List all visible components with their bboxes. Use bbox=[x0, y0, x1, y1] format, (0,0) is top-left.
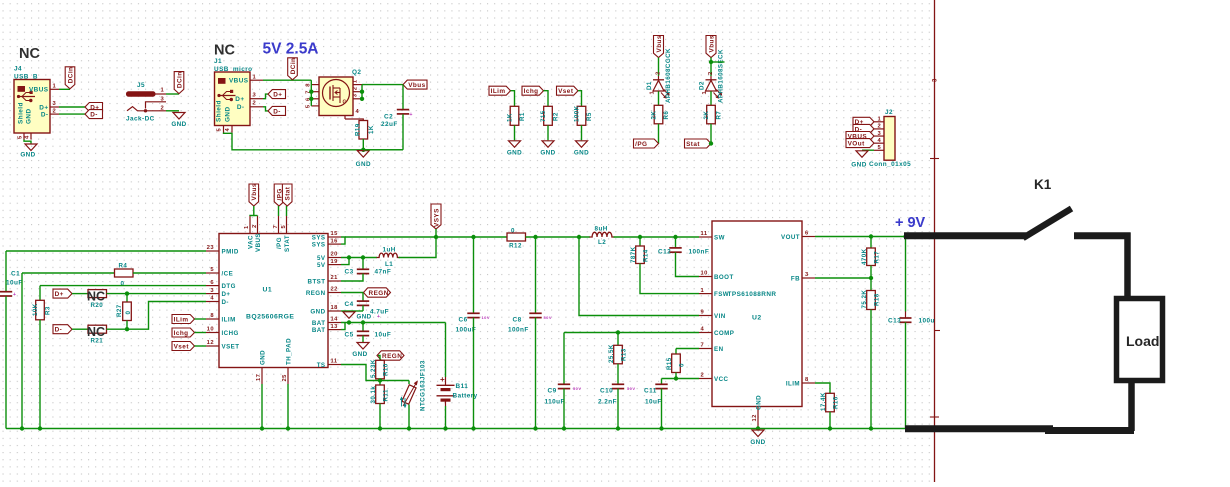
svg-text:R2: R2 bbox=[552, 112, 559, 121]
svg-text:D-: D- bbox=[222, 299, 229, 306]
U2 pin 1 FSW bbox=[699, 293, 712, 295]
svg-text:R16: R16 bbox=[832, 396, 839, 409]
svg-text:D+: D+ bbox=[235, 96, 244, 103]
svg-text:C6: C6 bbox=[459, 317, 468, 324]
J2 pin 4 bbox=[874, 142, 884, 144]
junction Q2 left bbox=[309, 90, 313, 94]
junction R17 top bbox=[869, 234, 873, 238]
svg-text:EN: EN bbox=[714, 346, 724, 353]
svg-text:Q2: Q2 bbox=[352, 69, 361, 76]
svg-text:R13: R13 bbox=[620, 348, 627, 361]
svg-text:D+: D+ bbox=[39, 105, 48, 112]
svg-text:4: 4 bbox=[878, 138, 882, 144]
global label DCin (J5) bbox=[174, 72, 184, 94]
wire VIN branch bbox=[579, 237, 699, 316]
junction BAT bbox=[347, 320, 351, 324]
wire C4 to gnd bbox=[362, 305, 364, 311]
inductor L2 8uH bbox=[590, 232, 615, 237]
resistor R13 25.5K bbox=[617, 333, 619, 346]
svg-text:PMID: PMID bbox=[222, 248, 239, 255]
label Vbus (Q2 output) bbox=[403, 80, 427, 89]
wire R7 down bbox=[710, 124, 712, 144]
svg-text:ILIM: ILIM bbox=[786, 380, 800, 387]
svg-text:VSET: VSET bbox=[222, 343, 240, 350]
junction R19 gnd bbox=[361, 148, 365, 152]
svg-text:7: 7 bbox=[701, 343, 705, 349]
svg-text:NC: NC bbox=[87, 325, 105, 339]
label Ichg bbox=[522, 86, 544, 95]
svg-text:+: + bbox=[410, 112, 413, 118]
wire J1 GND down to rail bbox=[224, 133, 404, 150]
wire Vbus label to U1 pins bbox=[250, 206, 254, 216]
U1 pin 5 /CE bbox=[206, 272, 219, 274]
U1 pin 4 D- bbox=[206, 301, 219, 303]
svg-text:Stat: Stat bbox=[285, 186, 292, 200]
svg-text:C8: C8 bbox=[513, 317, 522, 324]
resistor R10 5.23K bbox=[376, 360, 385, 379]
label D+ (J2) bbox=[853, 117, 874, 126]
wire R20 to U1 D+ bbox=[107, 293, 207, 295]
svg-text:D-: D- bbox=[90, 112, 98, 119]
junction VSYS rail bbox=[434, 235, 438, 239]
svg-text:Vbus: Vbus bbox=[408, 82, 425, 89]
junction D2 top bbox=[709, 60, 713, 64]
global label DCin (J1) bbox=[288, 58, 298, 80]
label D+ (J4) bbox=[85, 103, 103, 112]
svg-text:GND: GND bbox=[540, 150, 555, 157]
svg-text:715: 715 bbox=[540, 110, 547, 122]
svg-text:3: 3 bbox=[161, 97, 165, 103]
resistor R5 100K bbox=[577, 106, 586, 125]
svg-text:6: 6 bbox=[210, 280, 214, 286]
svg-text:COMP: COMP bbox=[714, 330, 734, 337]
U1 pin 10 ICHG bbox=[206, 332, 219, 334]
svg-text:R11: R11 bbox=[382, 389, 389, 401]
label Stat (U1 top) bbox=[282, 184, 292, 206]
junction /CE rail bbox=[20, 426, 24, 430]
wire R6 down bbox=[658, 124, 660, 144]
junction battery rail bbox=[443, 426, 447, 430]
thermistor TH NTC bbox=[408, 381, 410, 385]
resistor R15 0 bbox=[675, 349, 677, 355]
svg-text:C2: C2 bbox=[384, 114, 393, 121]
U2 pin 9 VIN bbox=[699, 315, 712, 317]
svg-text:2: 2 bbox=[656, 71, 662, 75]
wire J1 VBUS to Q2 bbox=[263, 79, 311, 81]
svg-text:50V: 50V bbox=[544, 315, 552, 320]
svg-text:470K: 470K bbox=[861, 248, 868, 265]
J2 pin 2 bbox=[874, 128, 884, 130]
U2 pin 8 ILIM bbox=[802, 382, 815, 384]
svg-text:0: 0 bbox=[121, 281, 125, 288]
junction R15 VCC bbox=[674, 376, 678, 380]
resistor R21 (NC) bbox=[88, 325, 107, 333]
svg-text:C4: C4 bbox=[345, 301, 354, 308]
svg-text:D1: D1 bbox=[646, 81, 653, 90]
svg-text:/PG: /PG bbox=[635, 141, 647, 148]
annotation wire load to bottom bbox=[1128, 381, 1135, 432]
annotation bottom return wire bbox=[905, 425, 1053, 432]
wire 5V pins tie bbox=[341, 258, 349, 265]
svg-text:12: 12 bbox=[207, 340, 214, 346]
wire REGN to R10 bbox=[378, 356, 380, 361]
svg-text:REGN: REGN bbox=[382, 353, 402, 360]
svg-text:Ichg: Ichg bbox=[524, 88, 539, 95]
global label DCin (J4) bbox=[65, 67, 75, 89]
svg-text:20: 20 bbox=[331, 252, 338, 258]
svg-text:BAT: BAT bbox=[312, 320, 326, 327]
svg-text:ICHG: ICHG bbox=[222, 330, 239, 337]
wire Vbus to D2 bbox=[710, 58, 712, 77]
U1 top pin 5 STAT bbox=[286, 216, 288, 234]
svg-text:Jack-DC: Jack-DC bbox=[126, 116, 155, 123]
resistor R27 0 bbox=[126, 294, 128, 302]
svg-text:TPS61088RNR: TPS61088RNR bbox=[728, 291, 777, 298]
wire J4 D+ bbox=[59, 106, 85, 108]
svg-text:GND: GND bbox=[352, 351, 367, 358]
svg-text:2: 2 bbox=[252, 224, 258, 228]
svg-text:Vbus: Vbus bbox=[251, 183, 258, 200]
label D+ (U1) bbox=[53, 289, 72, 298]
wire C2 to gnd rail bbox=[402, 114, 404, 150]
svg-text:3: 3 bbox=[253, 92, 257, 98]
wire VSYS label stem bbox=[435, 229, 437, 237]
U1 top pin 7 /PG bbox=[278, 216, 280, 234]
svg-text:NC: NC bbox=[214, 43, 235, 59]
annotation wire down to load bbox=[1124, 233, 1131, 298]
U1 bottom pin 17 GND bbox=[261, 368, 263, 385]
wire Vset bbox=[195, 345, 207, 347]
svg-text:DTG: DTG bbox=[222, 283, 236, 290]
svg-text:/CE: /CE bbox=[222, 270, 234, 277]
U1 bottom pin 25 TH_PAD bbox=[287, 368, 289, 385]
svg-text:21: 21 bbox=[331, 275, 339, 281]
U1 top pin 2 VBUS bbox=[257, 216, 259, 234]
wire J2 pin5 to gnd bbox=[862, 149, 874, 151]
ground R2 bbox=[542, 141, 554, 148]
wire D2 to R7 bbox=[710, 91, 712, 105]
svg-text:5: 5 bbox=[210, 267, 214, 273]
wire L2 to U2 SW bbox=[614, 236, 700, 238]
capacitor C11 10uF bbox=[661, 379, 663, 385]
J2 pin 3 bbox=[874, 135, 884, 137]
svg-text:10uF: 10uF bbox=[6, 280, 23, 287]
svg-text:R27: R27 bbox=[116, 304, 123, 317]
wire R21 to U1 D- bbox=[107, 302, 207, 330]
svg-text:VOUT: VOUT bbox=[781, 234, 800, 241]
annotation switch wire left bbox=[904, 232, 1026, 239]
wire J5 pin1 to DCin bbox=[166, 93, 179, 95]
U1 pin 11 TS bbox=[328, 364, 341, 366]
resistor R19 1K bbox=[359, 121, 368, 140]
svg-text:2K: 2K bbox=[703, 111, 710, 120]
U1 pin 14 BAT bbox=[328, 322, 341, 324]
svg-text:2: 2 bbox=[53, 108, 57, 114]
svg-text:100K: 100K bbox=[573, 105, 580, 122]
svg-text:G: G bbox=[343, 100, 347, 106]
svg-text:GND: GND bbox=[20, 152, 35, 159]
Q2 left pins 8 7 6 5 bbox=[311, 84, 319, 86]
junction U2 gnd bbox=[756, 426, 760, 430]
svg-text:25.5K: 25.5K bbox=[608, 344, 615, 363]
svg-text:+: + bbox=[440, 375, 445, 384]
svg-text:/PG: /PG bbox=[276, 237, 283, 249]
junction thermistor rail bbox=[407, 426, 411, 430]
label D- (J4) bbox=[85, 110, 103, 119]
svg-text:GND: GND bbox=[25, 108, 32, 124]
wire Q2 drain bus right bbox=[361, 85, 363, 99]
inductor L1 1uH bbox=[377, 253, 401, 257]
svg-text:Stat: Stat bbox=[686, 141, 700, 148]
svg-text:VBUS: VBUS bbox=[29, 87, 49, 94]
svg-text:VOut: VOut bbox=[848, 141, 865, 148]
svg-text:U2: U2 bbox=[752, 315, 762, 322]
svg-text:C12: C12 bbox=[658, 249, 671, 256]
load box bbox=[1117, 299, 1163, 381]
svg-text:11: 11 bbox=[331, 359, 338, 365]
svg-text:R12: R12 bbox=[509, 243, 522, 250]
svg-text:5V: 5V bbox=[317, 262, 326, 269]
svg-text:+ 9V: + 9V bbox=[895, 215, 926, 231]
U2 pin 6 VOUT bbox=[802, 236, 815, 238]
capacitor C4 4.7uF bbox=[362, 293, 364, 301]
svg-text:8uH: 8uH bbox=[595, 225, 608, 232]
svg-text:R1: R1 bbox=[519, 112, 526, 121]
junction TS divider bbox=[378, 378, 382, 382]
svg-text:Conn_01x05: Conn_01x05 bbox=[869, 161, 911, 168]
wire R3 to rail bbox=[39, 320, 41, 429]
svg-text:C1: C1 bbox=[11, 271, 20, 278]
ground Q2/C2 rail bbox=[357, 151, 369, 158]
svg-text:22uF: 22uF bbox=[381, 121, 398, 128]
svg-text:R7: R7 bbox=[716, 111, 723, 120]
svg-text:VIN: VIN bbox=[714, 313, 726, 320]
wire J4 shield to gnd bbox=[24, 140, 31, 144]
wire R12 to L2 bbox=[526, 236, 591, 238]
svg-text:APHB1608SECK: APHB1608SECK bbox=[718, 49, 725, 103]
U1 pin 23 PMID bbox=[206, 250, 219, 252]
svg-text:BTST: BTST bbox=[308, 278, 326, 285]
svg-text:25: 25 bbox=[282, 374, 288, 382]
svg-text:J4: J4 bbox=[14, 66, 22, 73]
J5 middle contact pin 3 bbox=[146, 102, 167, 109]
resistor R14 787K bbox=[639, 237, 641, 246]
svg-text:5: 5 bbox=[281, 225, 287, 229]
svg-text:ILIM: ILIM bbox=[222, 316, 236, 323]
wire J4 D- bbox=[59, 113, 85, 115]
svg-text:K1: K1 bbox=[1034, 177, 1052, 192]
svg-text:2K: 2K bbox=[651, 111, 658, 120]
wire FB net bbox=[815, 277, 871, 279]
wire J1 D+ jog bbox=[263, 94, 268, 99]
J2 pin 1 bbox=[874, 121, 884, 123]
svg-text:TH_PAD: TH_PAD bbox=[285, 338, 292, 365]
svg-text:C3: C3 bbox=[345, 269, 354, 276]
svg-text:5.23K: 5.23K bbox=[370, 359, 377, 378]
svg-text:47nF: 47nF bbox=[375, 269, 392, 276]
svg-text:DCin: DCin bbox=[290, 58, 297, 75]
svg-text:J2: J2 bbox=[885, 109, 893, 116]
svg-text:18: 18 bbox=[331, 305, 339, 311]
resistor R1 1K bbox=[510, 106, 519, 125]
wire R4 to U1 /CE bbox=[133, 272, 206, 274]
svg-text:R17: R17 bbox=[873, 251, 880, 264]
svg-text:1: 1 bbox=[244, 225, 250, 229]
svg-text:GND: GND bbox=[171, 121, 186, 128]
junction R14 bbox=[638, 235, 642, 239]
svg-text:D-: D- bbox=[41, 112, 49, 119]
U2 pin 3 FB bbox=[802, 277, 815, 279]
wire VOUT rail bbox=[815, 236, 906, 238]
svg-text:BQ25606RGE: BQ25606RGE bbox=[246, 314, 294, 321]
svg-text:R14: R14 bbox=[642, 249, 649, 262]
wire to thermistor bbox=[380, 380, 410, 382]
svg-text:BAT: BAT bbox=[312, 327, 326, 334]
svg-text:3: 3 bbox=[933, 78, 939, 82]
wire Q2 source bus left bbox=[310, 80, 312, 106]
svg-text:+: + bbox=[13, 292, 16, 298]
svg-text:GND: GND bbox=[310, 308, 325, 315]
svg-text:Vbus: Vbus bbox=[656, 35, 663, 52]
junction C6 bbox=[471, 235, 475, 239]
svg-text:10K: 10K bbox=[32, 303, 39, 316]
svg-text:SW: SW bbox=[714, 234, 725, 241]
svg-text:4: 4 bbox=[225, 128, 231, 132]
U1 pin 8 ILIM bbox=[206, 318, 219, 320]
svg-text:GND: GND bbox=[357, 313, 372, 320]
svg-text:1K: 1K bbox=[506, 113, 513, 122]
svg-text:12: 12 bbox=[752, 414, 758, 421]
junction C9 rail bbox=[562, 426, 566, 430]
wire 5V pin20 bbox=[341, 257, 377, 259]
wire EN net bbox=[676, 348, 699, 350]
svg-text:REGN: REGN bbox=[306, 290, 326, 297]
junction U1 gnd pins bbox=[260, 426, 264, 430]
wire R5 to gnd bbox=[581, 125, 583, 140]
wire Vset to R5 bbox=[578, 91, 582, 107]
wire C12 to BOOT bbox=[676, 252, 700, 276]
label D- (U1) bbox=[53, 325, 72, 334]
annotation switch wire right bbox=[1074, 232, 1131, 239]
U2 pin 7 EN bbox=[699, 348, 712, 350]
wire gnd rail Q2 area bbox=[363, 149, 403, 151]
svg-text:VBUS: VBUS bbox=[229, 78, 249, 85]
svg-text:4: 4 bbox=[356, 109, 360, 115]
junction C12 bbox=[673, 235, 677, 239]
label /PG (bottom) bbox=[634, 139, 659, 148]
svg-text:2: 2 bbox=[253, 101, 257, 107]
USB icon inside J4 bbox=[18, 86, 26, 92]
svg-text:STAT: STAT bbox=[284, 235, 291, 252]
resistor R20 (NC) bbox=[88, 290, 107, 298]
svg-text:C11: C11 bbox=[644, 388, 657, 395]
capacitor C5 10uF bbox=[362, 323, 364, 332]
ic U2 TPS61088RNR body bbox=[712, 221, 802, 407]
resistor R11 30.1k bbox=[379, 381, 381, 386]
junction FB bbox=[869, 276, 873, 280]
svg-text:R10: R10 bbox=[382, 363, 389, 376]
svg-text:1K: 1K bbox=[368, 125, 375, 134]
svg-text:2: 2 bbox=[161, 105, 165, 111]
svg-text:2: 2 bbox=[701, 373, 705, 379]
svg-text:6: 6 bbox=[805, 231, 809, 237]
svg-text:10: 10 bbox=[207, 327, 214, 333]
svg-text:2.2nF: 2.2nF bbox=[598, 399, 617, 406]
svg-text:Load: Load bbox=[1126, 333, 1159, 349]
wire thermistor to rail bbox=[408, 405, 410, 429]
wire PMID rail bbox=[6, 250, 206, 252]
wire J1 D- jog bbox=[263, 107, 268, 111]
resistor R3 10K bbox=[36, 300, 45, 320]
svg-text:22: 22 bbox=[331, 287, 338, 293]
wire SYS rail to R12 bbox=[345, 236, 507, 238]
junction R18 rail bbox=[869, 426, 873, 430]
svg-text:0: 0 bbox=[678, 363, 685, 367]
svg-text:D-: D- bbox=[55, 327, 63, 334]
svg-text:30.1k: 30.1k bbox=[370, 386, 377, 404]
svg-text:DCin: DCin bbox=[67, 67, 74, 84]
wire BAT pins tie bbox=[341, 323, 345, 330]
svg-text:1: 1 bbox=[649, 91, 655, 95]
label /PG (U1 top) bbox=[274, 184, 284, 206]
svg-text:1: 1 bbox=[53, 84, 57, 90]
J5 switch contact pin 2 bbox=[127, 107, 166, 111]
svg-text:VSYS: VSYS bbox=[434, 208, 441, 227]
svg-text:J5: J5 bbox=[137, 82, 145, 89]
svg-text:SYS: SYS bbox=[312, 241, 326, 248]
U2 bottom pin 12 GND bbox=[757, 407, 759, 429]
label Vset bbox=[557, 86, 579, 95]
wire Ichg bbox=[195, 332, 207, 334]
resistor R17 470K bbox=[870, 237, 872, 249]
label D+ (J1) bbox=[268, 90, 286, 99]
svg-text:TS: TS bbox=[317, 362, 326, 369]
svg-text:19: 19 bbox=[331, 259, 339, 265]
svg-text:R19: R19 bbox=[355, 123, 362, 136]
svg-text:D-: D- bbox=[237, 104, 245, 111]
wire Stat label bbox=[286, 206, 288, 216]
svg-text:DCin: DCin bbox=[176, 71, 183, 88]
label Vbus (U1 top) bbox=[249, 184, 259, 206]
ground J5 bbox=[173, 113, 185, 120]
svg-text:100nF: 100nF bbox=[508, 327, 529, 334]
svg-text:Shield: Shield bbox=[216, 100, 223, 122]
Q2 mosfet symbol bbox=[323, 80, 350, 107]
ground R1 bbox=[509, 141, 521, 148]
wire R11 to rail bbox=[379, 404, 381, 429]
wire REGN pin22 bbox=[341, 292, 364, 294]
svg-text:C5: C5 bbox=[345, 332, 354, 339]
svg-text:B11: B11 bbox=[456, 383, 469, 390]
svg-text:C10: C10 bbox=[600, 388, 613, 395]
svg-text:R18: R18 bbox=[873, 293, 880, 306]
svg-text:GND: GND bbox=[356, 161, 371, 168]
svg-text:16: 16 bbox=[331, 238, 339, 244]
U2 pin 4 COMP bbox=[699, 332, 712, 334]
svg-text:L1: L1 bbox=[385, 261, 393, 268]
capacitor C3 47nF bbox=[362, 258, 364, 270]
svg-text:4: 4 bbox=[701, 327, 705, 333]
svg-text:10uF: 10uF bbox=[375, 332, 392, 339]
svg-text:9: 9 bbox=[701, 310, 705, 316]
svg-text:5: 5 bbox=[18, 135, 24, 139]
svg-text:0: 0 bbox=[125, 311, 132, 315]
capacitor C12 100nF bbox=[675, 237, 677, 248]
wire SYS pins tie bbox=[341, 237, 345, 244]
junction Stat bbox=[709, 141, 713, 145]
label D- (J2) bbox=[853, 124, 874, 133]
U1 pin 21 BTST bbox=[328, 280, 341, 282]
